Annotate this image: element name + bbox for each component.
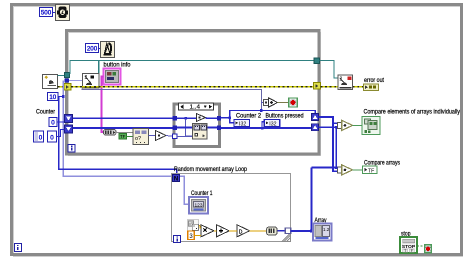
svg-text:Buttons pressed: Buttons pressed: [266, 113, 304, 120]
svg-text:2: 2: [340, 77, 343, 83]
svg-text:123: 123: [194, 202, 202, 208]
svg-text:Counter: Counter: [36, 109, 56, 116]
svg-text:F: F: [411, 249, 413, 253]
svg-text:Counter 1: Counter 1: [191, 190, 213, 197]
svg-text:200: 200: [87, 46, 98, 53]
svg-text:1..4: 1..4: [190, 105, 201, 111]
svg-text:N: N: [174, 177, 178, 183]
svg-text:Compare elements of arrays ind: Compare elements of arrays individually: [364, 109, 461, 116]
svg-text:error out: error out: [364, 77, 384, 84]
svg-text:Counter 2: Counter 2: [236, 113, 261, 120]
svg-text:TF: TF: [368, 168, 374, 174]
svg-text:0: 0: [39, 135, 43, 142]
svg-text:button info: button info: [104, 62, 131, 69]
svg-text:0: 0: [50, 135, 54, 142]
svg-text:500: 500: [41, 10, 52, 17]
svg-text:T: T: [404, 249, 406, 253]
svg-text:1.2: 1.2: [323, 227, 330, 232]
svg-text:Random movement array Loop: Random movement array Loop: [174, 166, 247, 173]
svg-text:TF: TF: [120, 134, 126, 139]
svg-text:10: 10: [49, 94, 56, 101]
svg-text:D: D: [239, 229, 243, 235]
svg-text:I32: I32: [239, 121, 246, 127]
svg-text:2: 2: [85, 75, 88, 81]
svg-text:o?: o?: [135, 136, 141, 142]
svg-text:I32: I32: [269, 121, 276, 127]
svg-text:0: 0: [51, 120, 55, 127]
